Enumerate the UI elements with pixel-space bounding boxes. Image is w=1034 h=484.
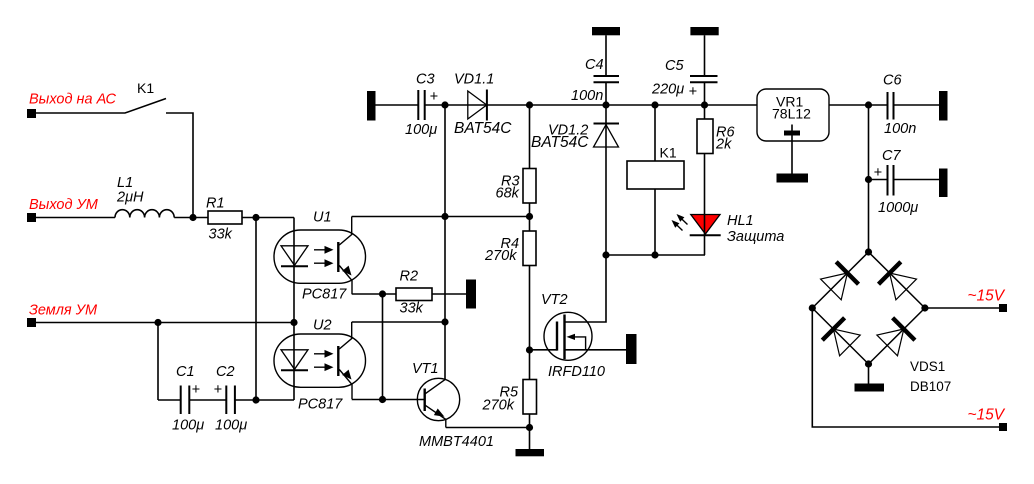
svg-text:+: +: [192, 382, 200, 398]
svg-text:VDS1: VDS1: [910, 359, 945, 374]
svg-text:C6: C6: [883, 73, 902, 89]
svg-text:U1: U1: [313, 210, 332, 226]
svg-text:R1: R1: [206, 196, 225, 212]
svg-text:C1: C1: [176, 364, 195, 380]
svg-text:2k: 2k: [715, 137, 732, 153]
svg-text:IRFD110: IRFD110: [548, 364, 605, 380]
svg-text:Выход на АС: Выход на АС: [29, 92, 116, 108]
svg-text:+: +: [874, 165, 882, 181]
svg-text:+: +: [689, 84, 697, 100]
svg-text:1000μ: 1000μ: [878, 200, 918, 216]
svg-text:C7: C7: [882, 148, 901, 164]
svg-text:C2: C2: [216, 364, 235, 380]
svg-text:+: +: [214, 382, 222, 398]
svg-text:100μ: 100μ: [405, 122, 437, 138]
svg-text:2μH: 2μH: [116, 190, 144, 206]
svg-text:33k: 33k: [209, 227, 233, 243]
svg-text:HL1: HL1: [727, 213, 754, 229]
svg-text:100n: 100n: [884, 121, 916, 137]
svg-text:Выход УМ: Выход УМ: [29, 197, 99, 213]
svg-text:K1: K1: [137, 80, 154, 96]
svg-text:MMBT4401: MMBT4401: [419, 434, 494, 450]
svg-text:68k: 68k: [496, 186, 520, 202]
svg-text:BAT54C: BAT54C: [454, 120, 512, 137]
svg-text:VD1.1: VD1.1: [454, 72, 494, 88]
svg-text:100μ: 100μ: [215, 418, 247, 434]
svg-text:VT1: VT1: [412, 361, 439, 377]
svg-text:33k: 33k: [400, 301, 424, 317]
svg-text:Защита: Защита: [727, 229, 784, 245]
svg-text:C3: C3: [416, 72, 435, 88]
svg-text:C5: C5: [665, 58, 684, 74]
svg-text:BAT54C: BAT54C: [531, 134, 589, 151]
svg-text:+: +: [430, 89, 438, 105]
svg-text:270k: 270k: [484, 248, 517, 264]
svg-text:Земля УМ: Земля УМ: [29, 303, 98, 319]
svg-text:220μ: 220μ: [651, 82, 684, 98]
svg-text:R2: R2: [400, 269, 419, 285]
svg-text:270k: 270k: [482, 398, 515, 414]
svg-text:100n: 100n: [571, 88, 603, 104]
svg-text:C4: C4: [585, 57, 604, 73]
svg-text:U2: U2: [313, 318, 332, 334]
svg-text:PC817: PC817: [298, 397, 343, 413]
svg-text:~15V: ~15V: [968, 407, 1006, 424]
svg-text:PC817: PC817: [302, 287, 347, 303]
svg-text:100μ: 100μ: [172, 418, 204, 434]
svg-text:~15V: ~15V: [968, 288, 1006, 305]
svg-text:78L12: 78L12: [772, 106, 811, 122]
svg-text:VT2: VT2: [541, 292, 568, 308]
svg-text:DB107: DB107: [910, 379, 951, 394]
svg-text:K1: K1: [660, 145, 677, 161]
